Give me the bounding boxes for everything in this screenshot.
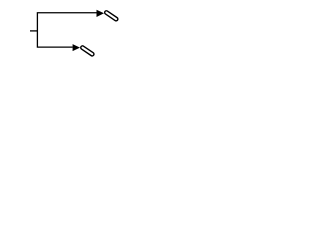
background: [0, 0, 150, 67]
wire: left input stub: [30, 30, 37, 32]
circuit schematic: node with two probe branches: [0, 0, 150, 67]
probe P1 arrowhead (top): [97, 10, 105, 17]
probe P1 body oval (top): [104, 10, 119, 21]
probe P2 arrowhead (bottom): [73, 44, 80, 51]
probe P2 body oval (bottom): [80, 45, 95, 56]
wire: T branch (top wire, vertical bus, bottom wire): [37, 13, 96, 47]
